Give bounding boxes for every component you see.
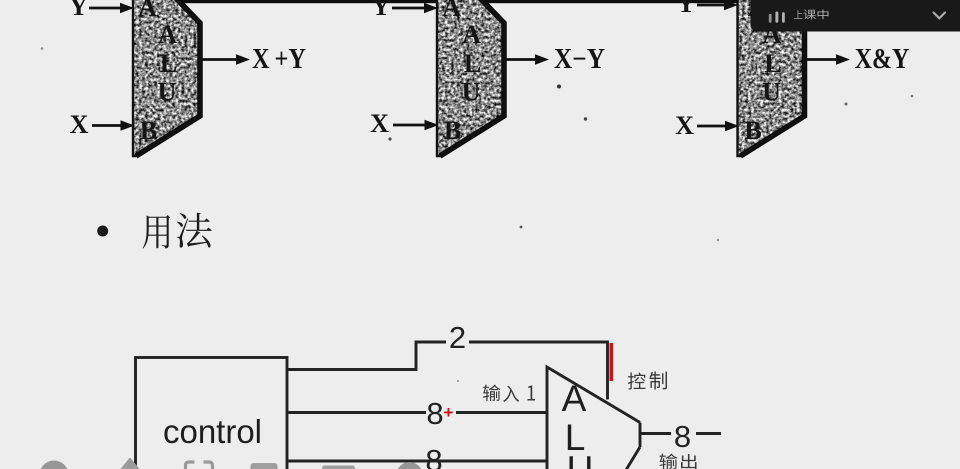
node X input to U1 [70,110,135,139]
ALU U1 body [133,0,200,156]
bullet marker [97,226,108,237]
svg-text:8: 8 [674,419,691,454]
svg-text:Y: Y [69,0,88,21]
widget chevron-down [934,13,946,19]
ALU U3 label "ALU" [762,20,782,107]
text 用法 (usage) [143,213,212,249]
svg-text:X: X [370,109,389,138]
svg-text:B: B [140,116,157,145]
svg-text:X: X [675,111,694,140]
svg-text:A: A [138,0,157,22]
node Y input to U1 [69,0,134,21]
toolbar icon: member circle (partial) [397,462,423,469]
ALU U4 label "ALU" [562,378,594,469]
svg-text:+: + [444,403,454,422]
label 输入1 (input 1) [483,385,535,403]
svg-text:control: control [163,413,262,450]
wire: 8-bit input 2 from control box to ALU [287,460,547,463]
ALU U2 body [437,0,504,156]
wire: U3 output arrow [806,54,851,65]
svg-text:L: L [464,49,481,78]
toolbar icon: pen tip (partial) [122,460,138,469]
node X input to U2 [370,109,438,138]
widget text 上课中 [794,10,802,19]
wire: U2 output arrow [505,54,549,65]
svg-text:X&Y: X&Y [855,44,910,75]
toolbar icon: mic circle (partial) [40,461,69,469]
ALU U4 body (bottom diagram) [547,367,640,469]
svg-text:U: U [158,78,177,107]
status widget: 上课中 (class in session) [751,0,960,32]
wire: horizontal bus line along top of figure [133,0,751,3]
svg-text:B: B [744,116,761,145]
toolbar icon: screenshot brackets (partial) [186,462,213,469]
svg-text:L: L [764,49,781,78]
svg-text:A: A [562,378,587,419]
wire: U1 output arrow [201,54,250,65]
wire: 8-bit output from ALU [640,432,671,435]
svg-text:2: 2 [449,320,466,355]
ALU U3 body [738,0,805,156]
scan noise specks (decorative) [41,47,44,50]
node X input to U3 [675,111,739,140]
ALU U1 label "ALU" [158,20,178,107]
widget signal bars icon [769,12,785,23]
svg-text:B: B [444,116,461,145]
svg-text:8: 8 [426,396,443,431]
svg-text:U: U [462,78,481,107]
svg-text:Y: Y [372,0,391,21]
control box [136,358,288,469]
svg-text:A: A [442,0,461,22]
svg-text:Y: Y [677,0,696,18]
svg-text:A: A [158,20,177,49]
toolbar icon: board button (partial) [251,463,278,469]
label 输出 (output) [660,453,697,468]
ALU U2 label "ALU" [462,20,482,107]
wire: 8-bit input 1 from control box to ALU [287,411,426,414]
wire: 2-bit control bus from control box to ALU (with jog) [287,342,446,370]
toolbar icon: wide button (partial) [322,466,355,469]
svg-text:A: A [462,20,481,49]
label 控制 (control) [628,372,667,390]
red control-line highlight [610,343,614,381]
svg-text:X: X [70,110,89,139]
svg-text:L: L [160,49,177,78]
svg-text:U: U [567,449,594,469]
node Y input to U2 [372,0,438,21]
svg-text:X +Y: X +Y [252,44,306,75]
node Y input to U3 [677,0,738,18]
svg-text:U: U [762,78,781,107]
svg-text:8: 8 [425,443,442,469]
svg-text:X−Y: X−Y [554,44,605,75]
